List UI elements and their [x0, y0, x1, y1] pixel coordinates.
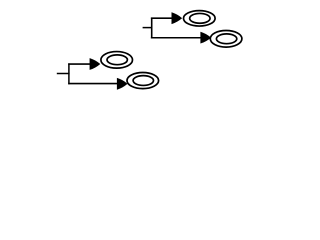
arrowhead into node B1 [172, 13, 182, 24]
node B1 outer ring [184, 11, 216, 26]
node B1 inner ring [190, 13, 210, 23]
arrowhead into node A2 [117, 78, 127, 89]
node A1 inner ring [107, 55, 127, 65]
arrowhead into node A1 [90, 59, 100, 70]
tree A top branch wire [68, 63, 91, 65]
node B2 inner ring [216, 34, 236, 44]
node A2 inner ring [133, 76, 153, 86]
tree B entry stub wire [143, 27, 153, 29]
tree B bottom branch wire [151, 37, 202, 39]
arrowhead into node B2 [201, 32, 211, 43]
node A2 outer ring [127, 73, 159, 89]
node B2 outer ring [210, 31, 242, 48]
tree B vertical trunk wire [151, 18, 153, 39]
tree A entry stub wire [57, 73, 70, 75]
node A1 outer ring [101, 52, 133, 69]
tree A vertical trunk wire [68, 63, 70, 84]
tree A bottom branch wire [68, 83, 118, 85]
tree B top branch wire [151, 17, 173, 19]
